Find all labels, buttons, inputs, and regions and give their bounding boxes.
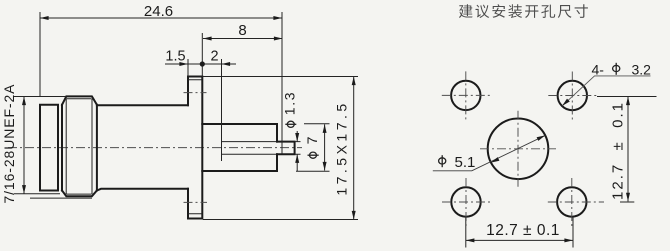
svg-text:1.3: 1.3 bbox=[282, 91, 298, 116]
svg-text:1.5: 1.5 bbox=[165, 49, 185, 65]
svg-text:5.1: 5.1 bbox=[455, 154, 476, 171]
svg-text:12.7 ± 0.1: 12.7 ± 0.1 bbox=[610, 101, 627, 200]
svg-text:24.6: 24.6 bbox=[144, 3, 173, 20]
svg-text:3.2: 3.2 bbox=[632, 61, 652, 77]
svg-text:17.5X17.5: 17.5X17.5 bbox=[334, 100, 350, 195]
svg-text:2: 2 bbox=[210, 49, 218, 65]
svg-text:7/16-28UNEF-2A: 7/16-28UNEF-2A bbox=[1, 84, 17, 204]
svg-text:4-: 4- bbox=[592, 61, 605, 77]
svg-text:12.7 ± 0.1: 12.7 ± 0.1 bbox=[486, 222, 560, 239]
svg-text:7: 7 bbox=[304, 136, 320, 144]
svg-text:8: 8 bbox=[238, 22, 246, 39]
